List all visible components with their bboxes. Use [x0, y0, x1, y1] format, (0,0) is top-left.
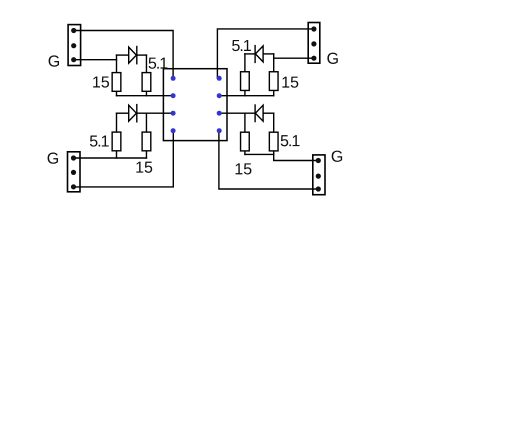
- resistor 5.1 (lower-right): [269, 132, 278, 151]
- wire J4.3 to U1.row4-right: [219, 131, 318, 189]
- wire upper-left left stub: [116, 55, 118, 73]
- wire lower-left right bottom stub: [145, 151, 147, 158]
- value label 15 (upper-right): [282, 77, 298, 88]
- wire upper-left diode line: [117, 54, 129, 56]
- blue pins U1 left column: [171, 76, 176, 81]
- wire J2.1 bottom line: [74, 157, 147, 159]
- connector J1 (top-left, G): [68, 25, 81, 66]
- wire lower-right left bottom stub: [244, 151, 246, 155]
- resistor 5.1 (upper-right): [241, 72, 250, 91]
- wire lower-left right stub: [145, 113, 147, 132]
- wire upper-right right bottom stub: [273, 90, 275, 95]
- wire upper-right right stub: [273, 54, 275, 72]
- wire upper-right left bottom stub: [244, 90, 246, 95]
- value label 5.1 (lower-left): [90, 136, 109, 147]
- wire J1.3 to node UL: [74, 59, 117, 61]
- pin dots J1: [71, 28, 76, 33]
- wire J2.3 to U1.row4-left: [74, 131, 174, 187]
- wire J3.3 to node UR: [274, 57, 314, 59]
- wire lower-left left stub: [116, 113, 118, 132]
- wire upper-left bracket to U1.row2-left: [117, 95, 174, 97]
- wire upper-left right bottom stub: [145, 91, 147, 95]
- resistor 5.1 (upper-left): [142, 73, 151, 92]
- value label 15 (upper-left): [93, 76, 109, 87]
- wire lower-left left bottom stub: [116, 151, 118, 158]
- wire lower-right right stub: [273, 113, 275, 132]
- connector U1 (central 8-pin): [163, 69, 227, 141]
- wire lower-right to J4.1: [274, 151, 319, 161]
- wire upper-left left bottom stub: [116, 91, 118, 95]
- diode D2 (upper-right): [255, 46, 263, 63]
- pin dots J2: [71, 155, 76, 160]
- connector J4 (bottom-right, G): [313, 155, 325, 195]
- pin dots J4: [316, 158, 321, 163]
- wire upper-right left stub: [244, 54, 246, 72]
- net label G (bottom-left): [48, 152, 58, 163]
- diode D1 (upper-left): [129, 47, 137, 64]
- wire upper-left right stub: [145, 55, 147, 73]
- wire lower-right left stub: [244, 113, 246, 132]
- resistor 15 (lower-right): [241, 132, 250, 151]
- value label 15 (lower-right): [236, 163, 252, 174]
- resistor 15 (upper-right): [269, 72, 278, 91]
- diode D4 (lower-right): [255, 105, 263, 122]
- value label 5.1 (upper-right): [232, 40, 251, 51]
- resistor 5.1 (lower-left): [112, 132, 121, 151]
- connector J2 (bottom-left, G): [68, 152, 81, 192]
- value label 5.1 (lower-right): [281, 135, 300, 146]
- net label G (top-left): [49, 55, 59, 66]
- wire lower-right bracket: [245, 153, 274, 155]
- wire J1.1 to U1.row1-left: [74, 31, 173, 79]
- wire upper-right bracket to U1.row2-right: [219, 95, 274, 97]
- diode D3 (lower-left): [129, 105, 137, 122]
- net label G (bottom-right): [332, 151, 342, 162]
- wire lower-left diode line from U1.row3-left: [117, 112, 129, 114]
- connector J3 (top-right, G): [308, 23, 320, 64]
- wire upper-right diode line: [245, 53, 255, 55]
- blue pins U1 right column: [217, 76, 222, 81]
- pin dots J3: [311, 26, 316, 31]
- value label 15 (lower-left): [136, 162, 152, 173]
- resistor 15 (lower-left): [142, 132, 151, 151]
- wire lower-right diode line from U1.row3-right: [219, 112, 255, 114]
- net label G (top-right): [327, 53, 337, 64]
- wire J3.1 to U1.row1-right: [217, 29, 314, 78]
- resistor 15 (upper-left): [112, 73, 121, 92]
- value label 5.1 (upper-left): [149, 58, 168, 69]
